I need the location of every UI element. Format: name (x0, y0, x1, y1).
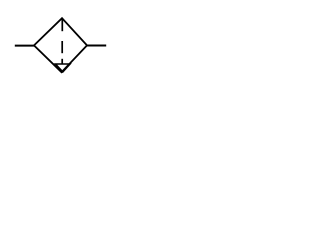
filter element dashed line (segment 1) (61, 19, 63, 31)
wire (right connection) (87, 45, 107, 47)
filter element dashed line (segment 2) (61, 41, 63, 53)
filter body F1 (diamond) (34, 18, 87, 72)
wire (left connection) (15, 45, 35, 47)
drain arrowhead (down triangle) (56, 64, 71, 72)
filter element dashed line (segment 3) (61, 59, 63, 64)
